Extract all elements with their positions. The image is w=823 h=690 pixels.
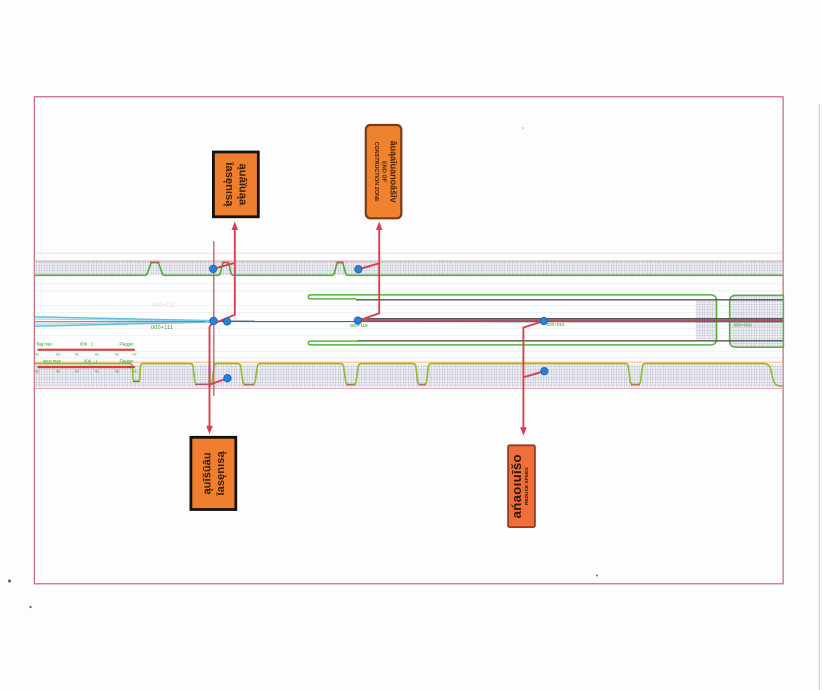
svg-text:REDUCE SPEED: REDUCE SPEED (524, 467, 530, 505)
bottom hatch band (35, 365, 783, 389)
page border frame (34, 97, 783, 584)
svg-text:0s: 0s (133, 352, 137, 356)
svg-text:END OF: END OF (381, 161, 387, 183)
svg-text:0s: 0s (95, 352, 99, 356)
node dots (210, 265, 549, 382)
svg-text:ąuīšūāu: ąuīšūāu (201, 452, 213, 494)
faint lane guide lines (35, 284, 783, 358)
svg-text:Flagger: Flagger (120, 342, 135, 347)
svg-text:00K : 1: 00K : 1 (84, 358, 98, 363)
teal centre line (214, 320, 783, 322)
leader arrow to sign A (213, 226, 235, 323)
svg-text:īasęnısą: īasęnısą (223, 161, 235, 207)
hatch between channel ends (696, 301, 717, 340)
svg-text:0s: 0s (35, 352, 39, 356)
bottom road edge green line with driveway notches (35, 364, 783, 386)
svg-text:ąuāïuąa: ąuāïuąa (236, 164, 248, 206)
svg-text:Flagger: Flagger (120, 358, 135, 363)
dust specks (8, 127, 598, 608)
sign A: project end (213, 152, 258, 217)
sign B: end of construction zone (366, 125, 402, 218)
top road edge green line with driveway bumps (35, 263, 783, 276)
svg-text:0s: 0s (75, 352, 79, 356)
svg-text:0s: 0s (133, 369, 137, 373)
svg-text:āuąaīuanoāšīv: āuąaīuanoāšīv (389, 141, 399, 203)
svg-text:0s: 0s (75, 369, 79, 373)
upper channel island outline (308, 295, 716, 345)
svg-text:0s: 0s (56, 352, 60, 356)
svg-text:0s: 0s (35, 369, 39, 373)
leader arrow to sign C (523, 321, 544, 429)
svg-text:ańaoıuīšo: ańaoıuīšo (509, 454, 524, 518)
svg-text:00K : 1: 00K : 1 (80, 342, 94, 347)
sign C: reduce speed (508, 445, 535, 527)
svg-text:0s: 0s (115, 369, 119, 373)
svg-text:west man: west man (43, 358, 62, 363)
right channel pill (clipped by frame) (730, 295, 784, 347)
maroon bottoms of notches (133, 382, 640, 385)
svg-text:0s: 0s (115, 352, 119, 356)
construction centre maroon line (355, 320, 783, 322)
flagger bar 2 (35, 358, 137, 373)
svg-text:CONSTRUCTION ZONE: CONSTRUCTION ZONE (373, 142, 379, 202)
green station labels (151, 322, 752, 331)
svg-text:000+000: 000+000 (734, 322, 752, 327)
channel inner gray lines (356, 300, 783, 341)
svg-text:000+111: 000+111 (152, 302, 176, 309)
leader arrow to sign B (358, 226, 379, 320)
sign D: project start (191, 437, 236, 509)
top shoulder hatch band (35, 253, 783, 275)
faint orange utility line above bottom edge (35, 361, 783, 363)
maroon thin centre line left (35, 321, 206, 323)
scan edge line right (819, 104, 821, 690)
construction centre gray line (356, 318, 783, 320)
svg-text:0s: 0s (95, 369, 99, 373)
leader arrow to sign D (210, 321, 228, 427)
svg-text:0s: 0s (56, 369, 60, 373)
svg-text:flag man: flag man (37, 342, 54, 347)
svg-text:000+111: 000+111 (151, 325, 173, 331)
maroon caps on top driveway bumps (150, 261, 344, 263)
muted station reference line (213, 241, 215, 396)
svg-text:īasęnısą: īasęnısą (215, 451, 227, 497)
cyan taper lines (existing lane shift) (35, 317, 211, 326)
svg-text:000+015: 000+015 (547, 322, 565, 327)
flagger bar 1 (35, 342, 137, 357)
